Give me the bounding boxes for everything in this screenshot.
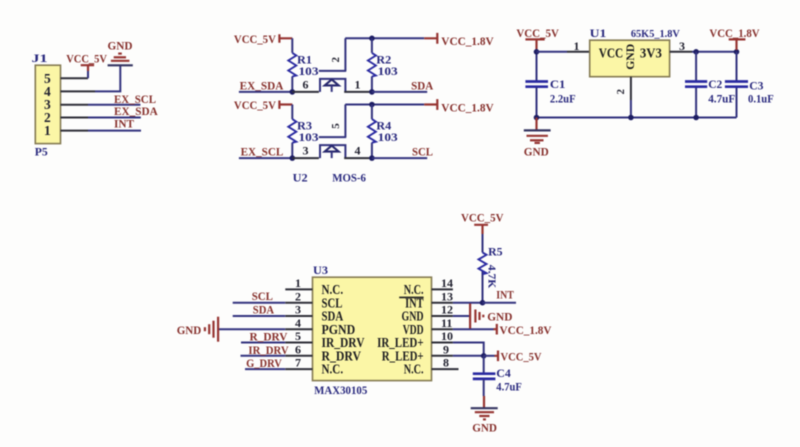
svg-text:10: 10	[441, 329, 453, 343]
svg-text:GND: GND	[487, 309, 513, 323]
svg-text:14: 14	[441, 276, 453, 290]
svg-text:U3: U3	[313, 263, 328, 277]
svg-text:SCL: SCL	[412, 145, 433, 159]
svg-text:SDA: SDA	[253, 302, 275, 316]
svg-text:EX_SDA: EX_SDA	[240, 78, 284, 92]
svg-text:VCC_5V: VCC_5V	[66, 52, 107, 66]
svg-text:3: 3	[303, 144, 309, 158]
svg-text:2.2uF: 2.2uF	[550, 91, 576, 105]
svg-text:SDA: SDA	[411, 78, 433, 92]
svg-text:3: 3	[295, 303, 301, 317]
svg-text:2: 2	[330, 57, 342, 63]
svg-text:4.7K: 4.7K	[485, 265, 497, 289]
svg-text:IR_DRV: IR_DRV	[248, 343, 288, 357]
svg-text:11: 11	[441, 316, 452, 330]
svg-text:9: 9	[443, 342, 449, 356]
svg-text:GND: GND	[524, 144, 549, 158]
svg-text:GND: GND	[623, 43, 637, 69]
svg-text:U1: U1	[590, 26, 607, 40]
svg-text:U2: U2	[293, 171, 308, 185]
svg-text:C1: C1	[550, 77, 566, 91]
svg-text:13: 13	[441, 289, 453, 303]
svg-text:5: 5	[330, 123, 342, 129]
svg-text:65K5_1.8V: 65K5_1.8V	[631, 28, 680, 40]
svg-text:VCC_5V: VCC_5V	[461, 211, 504, 225]
svg-text:GND: GND	[177, 323, 202, 337]
svg-text:VCC_5V: VCC_5V	[501, 349, 542, 363]
svg-text:VCC_1.8V: VCC_1.8V	[441, 100, 494, 114]
svg-text:VCC_1.8V: VCC_1.8V	[441, 34, 494, 48]
svg-text:3: 3	[679, 39, 685, 53]
svg-text:GND: GND	[472, 421, 497, 435]
svg-text:P5: P5	[35, 144, 48, 158]
svg-text:N.C.: N.C.	[404, 363, 424, 378]
svg-text:2: 2	[295, 289, 301, 303]
svg-text:2: 2	[615, 88, 627, 94]
svg-text:GND: GND	[108, 39, 133, 53]
svg-text:7: 7	[295, 356, 301, 370]
svg-text:103: 103	[378, 130, 398, 144]
svg-text:C4: C4	[496, 366, 511, 380]
svg-text:8: 8	[443, 356, 449, 370]
svg-text:INT: INT	[114, 116, 134, 130]
svg-text:J1: J1	[32, 51, 48, 65]
svg-text:103: 103	[299, 64, 319, 78]
svg-text:VCC_5V: VCC_5V	[516, 26, 559, 40]
svg-text:EX_SCL: EX_SCL	[241, 145, 284, 159]
svg-text:VCC_1.8V: VCC_1.8V	[709, 26, 759, 40]
svg-text:6: 6	[295, 342, 301, 356]
svg-text:103: 103	[378, 64, 398, 78]
svg-text:VCC: VCC	[599, 46, 624, 61]
svg-text:R_DRV: R_DRV	[250, 330, 288, 344]
svg-text:C2: C2	[708, 77, 722, 91]
svg-text:C3: C3	[749, 79, 763, 93]
svg-text:4: 4	[295, 316, 301, 330]
svg-text:5: 5	[295, 329, 301, 343]
svg-text:VCC_5V: VCC_5V	[234, 32, 276, 46]
svg-text:6: 6	[303, 78, 309, 92]
svg-text:SCL: SCL	[252, 289, 273, 303]
svg-text:VCC_5V: VCC_5V	[234, 98, 276, 112]
svg-text:3V3: 3V3	[640, 46, 662, 61]
svg-text:1: 1	[355, 78, 361, 92]
svg-text:1: 1	[44, 123, 51, 138]
svg-text:1: 1	[574, 39, 580, 53]
svg-text:1: 1	[295, 276, 301, 290]
svg-text:VCC_1.8V: VCC_1.8V	[500, 323, 552, 337]
svg-text:4.7uF: 4.7uF	[708, 91, 735, 105]
svg-text:4: 4	[355, 144, 361, 158]
svg-text:103: 103	[299, 130, 319, 144]
svg-text:G_DRV: G_DRV	[246, 356, 282, 370]
svg-text:12: 12	[441, 303, 453, 317]
svg-text:MAX30105: MAX30105	[314, 383, 367, 397]
svg-text:INT: INT	[496, 288, 514, 302]
svg-text:R5: R5	[488, 245, 503, 259]
svg-text:4.7uF: 4.7uF	[496, 380, 522, 394]
svg-text:0.1uF: 0.1uF	[748, 91, 774, 105]
svg-text:N.C.: N.C.	[322, 363, 344, 378]
svg-text:MOS-6: MOS-6	[332, 171, 366, 185]
